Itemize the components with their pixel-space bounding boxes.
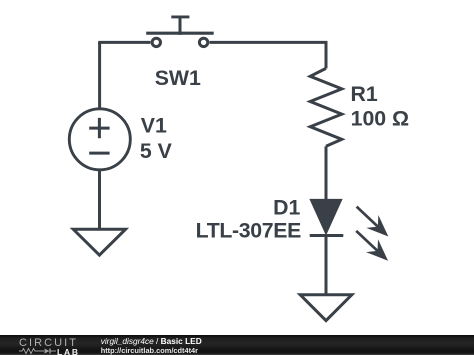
credit line 1 <box>101 337 202 346</box>
svg-text:SW1: SW1 <box>155 66 201 90</box>
svg-text:R1: R1 <box>351 82 378 106</box>
svg-text:LTL-307EE: LTL-307EE <box>196 218 301 242</box>
CircuitLab logo resistor-diode glyph <box>19 347 59 355</box>
voltage source V1 circle <box>69 109 130 170</box>
switch SW1 left terminal circle <box>152 38 160 46</box>
switch SW1 actuator T cap <box>171 15 189 18</box>
svg-text:D1: D1 <box>273 196 300 220</box>
LED light arrow 2 <box>350 224 394 267</box>
ground symbol left <box>73 229 125 255</box>
wire top rail left segment <box>98 41 150 44</box>
svg-text:100 Ω: 100 Ω <box>351 106 410 130</box>
wire top rail right segment with corner down to resistor <box>210 42 327 68</box>
resistor R1 zigzag <box>310 68 342 146</box>
switch SW1 actuator stem <box>179 17 182 35</box>
V1 plus sign <box>89 118 109 138</box>
switch SW1 right terminal circle <box>199 38 207 46</box>
wire V1 bottom to ground <box>98 170 101 228</box>
wire from V1 top to top rail <box>98 42 101 108</box>
V1 minus sign <box>89 152 109 155</box>
svg-text:V1: V1 <box>141 114 167 138</box>
svg-text:5 V: 5 V <box>140 139 173 163</box>
credit line 2 <box>101 347 198 355</box>
ground symbol right <box>300 295 352 321</box>
footer bar <box>0 335 474 355</box>
switch SW1 actuator bar <box>146 32 214 35</box>
LED light arrow 1 <box>351 200 395 243</box>
wire resistor bottom to LED top <box>325 146 328 200</box>
CircuitLab logo text LAB <box>57 348 80 355</box>
wire LED cathode to ground <box>325 236 328 294</box>
LED D1 cathode bar <box>310 234 344 237</box>
CircuitLab logo text CIRCUIT <box>19 339 78 347</box>
LED D1 triangle <box>311 200 341 233</box>
